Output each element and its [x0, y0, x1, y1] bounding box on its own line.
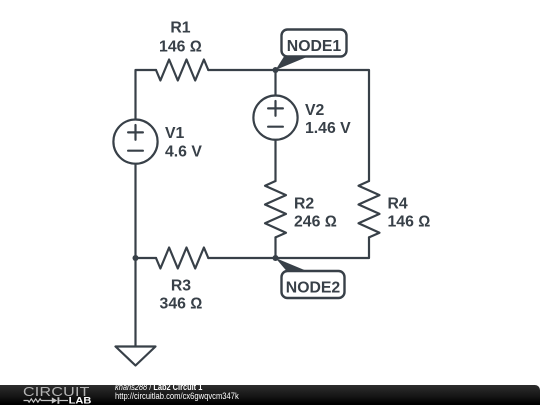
wire: [274, 70, 276, 95]
svg-text:V1: V1: [165, 125, 185, 142]
svg-text:346 Ω: 346 Ω: [160, 296, 203, 313]
wire: [208, 69, 275, 71]
logo wire to LAB: [59, 400, 68, 402]
wire: [134, 165, 136, 259]
footer bar: [0, 385, 540, 405]
voltage source V2: [253, 96, 297, 140]
logo resistor glyph: [24, 399, 53, 402]
svg-text:V2: V2: [305, 102, 325, 119]
label V1 value: [165, 125, 202, 160]
node NODE1 junction: [273, 67, 279, 73]
svg-text:R4: R4: [388, 195, 408, 212]
svg-text:246 Ω: 246 Ω: [294, 214, 337, 231]
label R4 value: [388, 195, 431, 230]
svg-text:R1: R1: [170, 19, 190, 36]
svg-text:R3: R3: [171, 278, 191, 295]
node junction at V1/R3/ground: [133, 255, 139, 261]
svg-text:NODE2: NODE2: [286, 280, 341, 297]
label R2 value: [294, 195, 337, 230]
svg-text:NODE1: NODE1: [287, 38, 342, 55]
svg-text:4.6 V: 4.6 V: [165, 143, 202, 160]
wire: [136, 70, 157, 119]
resistor R1: [156, 60, 208, 81]
svg-text:146 Ω: 146 Ω: [159, 39, 202, 56]
logo diode triangle: [52, 397, 58, 403]
svg-text:146 Ω: 146 Ω: [388, 214, 431, 231]
wire: [134, 258, 136, 346]
wire: [276, 70, 370, 181]
label R1 value: [159, 19, 202, 55]
resistor R2: [265, 181, 286, 237]
svg-text:1.46 V: 1.46 V: [305, 120, 351, 137]
wire: [136, 257, 157, 259]
node NODE1 label callout: [276, 30, 347, 71]
logo diode cathode bar: [57, 397, 59, 404]
wire: [208, 257, 275, 259]
footer attribution text: [115, 383, 202, 393]
node NODE2 junction: [273, 255, 279, 261]
resistor R4: [359, 181, 380, 237]
resistor R3: [156, 248, 208, 269]
CircuitLab logo wordmark: [23, 386, 90, 398]
label V2 value: [305, 102, 351, 137]
wire: [274, 237, 276, 258]
label R3 value: [160, 278, 203, 313]
wire: [276, 237, 370, 258]
node NODE2 label callout: [276, 258, 345, 298]
svg-text:R2: R2: [294, 195, 314, 212]
wire: [274, 141, 276, 182]
voltage source V1: [113, 120, 157, 164]
ground: [116, 347, 156, 366]
footer url text: [115, 392, 239, 402]
